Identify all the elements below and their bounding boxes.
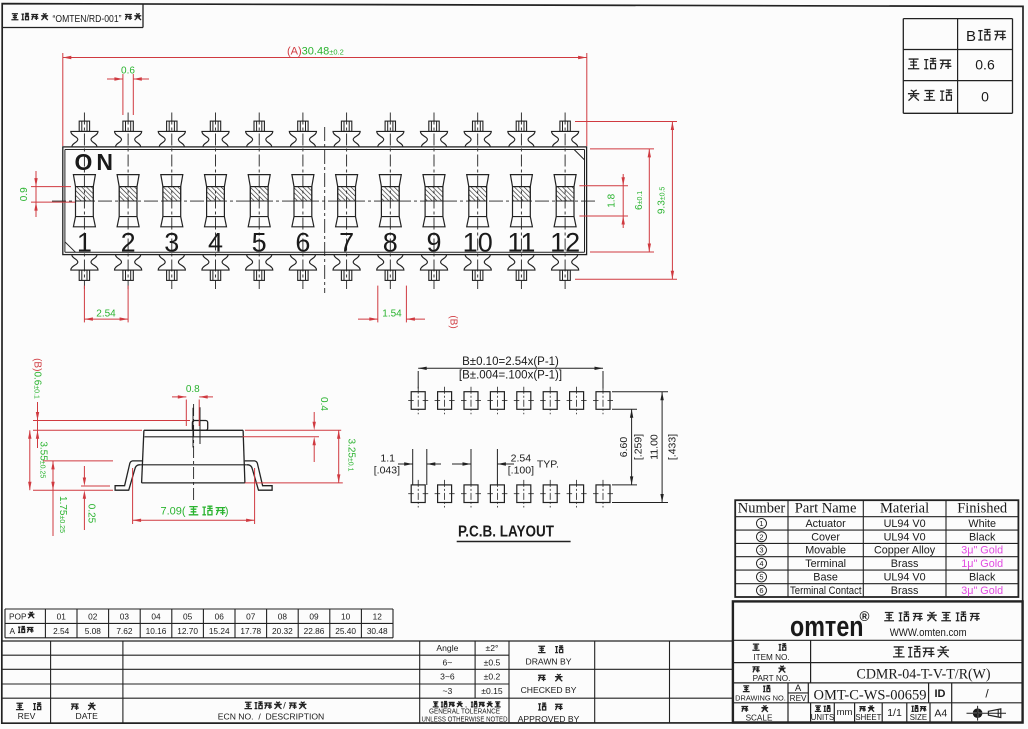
svg-text:03: 03 [120, 612, 130, 622]
svg-text:3μ" Gold: 3μ" Gold [961, 545, 1003, 557]
svg-text:7.09(: 7.09( [161, 506, 186, 518]
svg-text:6~: 6~ [442, 657, 452, 667]
svg-text:Brass: Brass [891, 585, 919, 597]
svg-text:DRAWING NO.: DRAWING NO. [735, 694, 786, 703]
svg-text:05: 05 [183, 612, 193, 622]
svg-text:White: White [968, 518, 996, 530]
svg-text:12: 12 [550, 228, 580, 258]
svg-text:P.C.B. LAYOUT: P.C.B. LAYOUT [458, 524, 554, 541]
svg-text:Base: Base [813, 572, 838, 584]
svg-text:10.16: 10.16 [146, 626, 167, 636]
svg-text:0.6: 0.6 [121, 66, 135, 77]
svg-text:DATE: DATE [76, 711, 99, 721]
svg-text:APPROVED BY: APPROVED BY [518, 714, 580, 724]
svg-text:±0.2: ±0.2 [484, 672, 501, 682]
svg-text:7: 7 [339, 228, 354, 258]
svg-text:0.6: 0.6 [975, 57, 995, 73]
svg-text:06: 06 [215, 612, 225, 622]
svg-text:ID: ID [935, 688, 946, 700]
svg-text:10: 10 [463, 228, 493, 258]
svg-text:CHECKED BY: CHECKED BY [521, 685, 577, 695]
svg-text:12: 12 [373, 612, 383, 622]
svg-text:1.1: 1.1 [380, 453, 395, 465]
svg-text:6.60: 6.60 [618, 437, 630, 458]
svg-text:5: 5 [252, 228, 267, 258]
svg-text:/: / [283, 701, 286, 712]
svg-text:A: A [10, 626, 16, 636]
svg-text:OMT-C-WS-00659: OMT-C-WS-00659 [814, 687, 927, 704]
svg-text:1μ" Gold: 1μ" Gold [961, 558, 1003, 570]
svg-text:1/1: 1/1 [887, 707, 902, 719]
svg-text:1: 1 [759, 519, 763, 528]
svg-text:SCALE: SCALE [746, 714, 773, 723]
svg-text:Movable: Movable [805, 545, 846, 557]
svg-text:2: 2 [759, 532, 763, 541]
svg-text:30.48: 30.48 [367, 626, 388, 636]
svg-text:[.259]: [.259] [633, 434, 645, 460]
svg-text:4: 4 [208, 228, 223, 258]
svg-text:3: 3 [164, 228, 179, 258]
svg-text:mm: mm [837, 707, 853, 718]
svg-text:0.8: 0.8 [186, 384, 200, 395]
svg-text:1.54: 1.54 [382, 309, 402, 320]
svg-text:ECN NO. / DESCRIPTION: ECN NO. / DESCRIPTION [218, 712, 324, 722]
svg-text:3: 3 [759, 546, 763, 555]
svg-text:A: A [795, 683, 802, 694]
svg-text:10: 10 [341, 612, 351, 622]
svg-text:WWW.omten.com: WWW.omten.com [890, 627, 967, 639]
svg-text:±2°: ±2° [486, 643, 499, 653]
svg-text:0.4: 0.4 [318, 397, 329, 411]
svg-text:Black: Black [969, 572, 996, 584]
svg-text:2.54: 2.54 [53, 626, 70, 636]
svg-text:12.70: 12.70 [177, 626, 198, 636]
svg-text:3~6: 3~6 [440, 672, 455, 682]
svg-text:UNLESS OTHERWISE NOTED: UNLESS OTHERWISE NOTED [422, 714, 508, 723]
svg-text:CDMR-04-T-V-T/R(W): CDMR-04-T-V-T/R(W) [857, 666, 991, 683]
svg-text:9: 9 [426, 228, 441, 258]
svg-text:15.24: 15.24 [209, 626, 230, 636]
svg-text:Actuator: Actuator [805, 518, 846, 530]
svg-text:SIZE: SIZE [910, 713, 927, 722]
svg-text:5: 5 [759, 573, 763, 582]
svg-text:omтen: omтen [790, 611, 864, 643]
svg-text:Terminal Contact: Terminal Contact [790, 585, 862, 597]
svg-text:2.54: 2.54 [511, 453, 532, 465]
svg-text:ITEM NO.: ITEM NO. [753, 653, 789, 662]
svg-text:(A)30.48±0.2: (A)30.48±0.2 [287, 46, 344, 58]
svg-text:“OMTEN/RD-001”: “OMTEN/RD-001” [53, 14, 122, 25]
svg-text:TYP.: TYP. [537, 459, 559, 471]
svg-text:DRAWN BY: DRAWN BY [526, 657, 572, 667]
svg-text:25.40: 25.40 [335, 626, 356, 636]
svg-text:2: 2 [121, 228, 136, 258]
svg-text:UL94 V0: UL94 V0 [884, 531, 926, 543]
svg-text:20.32: 20.32 [272, 626, 293, 636]
svg-text:REV: REV [790, 694, 807, 703]
svg-text:11: 11 [507, 228, 535, 258]
svg-text:Material: Material [880, 501, 929, 517]
svg-text:[.100]: [.100] [508, 465, 534, 477]
svg-text:Black: Black [969, 531, 996, 543]
svg-text:Part Name: Part Name [795, 501, 857, 517]
svg-text:2.54: 2.54 [96, 309, 116, 320]
svg-text:[.433]: [.433] [666, 434, 678, 460]
svg-text:Finished: Finished [957, 501, 1008, 517]
svg-text:04: 04 [151, 612, 161, 622]
svg-text:Cover: Cover [811, 531, 840, 543]
svg-text:®: ® [860, 609, 870, 624]
svg-text:Angle: Angle [436, 643, 458, 653]
svg-text:3μ" Gold: 3μ" Gold [961, 585, 1003, 597]
svg-text:22.86: 22.86 [304, 626, 325, 636]
svg-text:A4: A4 [934, 708, 947, 720]
svg-text:Terminal: Terminal [805, 558, 846, 570]
svg-text:0.9: 0.9 [19, 187, 30, 201]
svg-text:~3: ~3 [442, 686, 452, 696]
svg-text:±0.5: ±0.5 [484, 657, 501, 667]
svg-text:Number: Number [738, 501, 786, 517]
svg-text:±0.15: ±0.15 [481, 686, 503, 696]
svg-text:5.08: 5.08 [85, 626, 102, 636]
svg-text:REV: REV [18, 711, 36, 721]
svg-text:0: 0 [981, 89, 989, 105]
svg-text:SHEET: SHEET [855, 713, 881, 722]
svg-text:UL94 V0: UL94 V0 [884, 572, 926, 584]
svg-text:4: 4 [759, 559, 763, 568]
svg-text:(B): (B) [448, 315, 459, 328]
svg-text:B: B [966, 28, 976, 45]
svg-text:1: 1 [77, 228, 92, 258]
svg-text:UNITS: UNITS [811, 713, 834, 722]
svg-text:7.62: 7.62 [116, 626, 133, 636]
svg-text:02: 02 [88, 612, 98, 622]
svg-text:Copper Alloy: Copper Alloy [874, 545, 936, 557]
svg-text:[B±.004=.100x(P-1)]: [B±.004=.100x(P-1)] [459, 370, 562, 382]
svg-text:1.8: 1.8 [607, 193, 618, 207]
svg-text:PART NO.: PART NO. [753, 674, 791, 683]
svg-text:09: 09 [309, 612, 319, 622]
svg-text:[.043]: [.043] [374, 465, 400, 477]
svg-text:Brass: Brass [891, 558, 919, 570]
svg-text:8: 8 [383, 228, 398, 258]
svg-text:B±0.10=2.54x(P-1): B±0.10=2.54x(P-1) [462, 356, 559, 368]
svg-text:0.25: 0.25 [86, 504, 97, 524]
svg-text:UL94 V0: UL94 V0 [884, 518, 926, 530]
svg-text:6: 6 [759, 586, 763, 595]
svg-text:08: 08 [278, 612, 288, 622]
svg-text:ON: ON [75, 149, 118, 175]
svg-text:POP: POP [9, 612, 27, 622]
svg-text:6: 6 [295, 228, 310, 258]
svg-text:17.78: 17.78 [240, 626, 261, 636]
svg-text:11.00: 11.00 [649, 434, 661, 460]
svg-text:01: 01 [57, 612, 67, 622]
svg-text:07: 07 [246, 612, 256, 622]
svg-text:): ) [225, 506, 229, 518]
